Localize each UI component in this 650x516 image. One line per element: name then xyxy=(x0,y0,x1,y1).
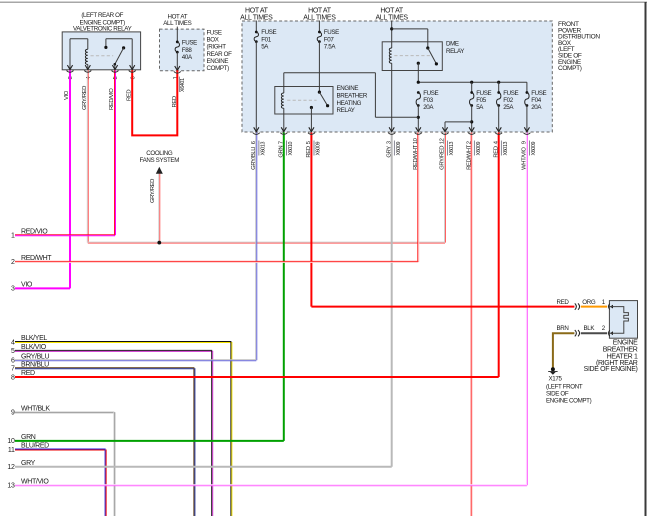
svg-text:X6013: X6013 xyxy=(260,142,266,156)
svg-text:(RIGHT: (RIGHT xyxy=(207,44,227,51)
svg-text:RED: RED xyxy=(556,299,569,306)
svg-text:BLK: BLK xyxy=(583,325,595,332)
svg-text:FUSE: FUSE xyxy=(261,29,276,36)
svg-text:6: 6 xyxy=(11,358,15,365)
svg-text:(LEFT REAR OF: (LEFT REAR OF xyxy=(81,12,123,19)
svg-text:HOT AT: HOT AT xyxy=(245,7,269,14)
svg-text:5A: 5A xyxy=(476,104,484,111)
svg-text:COOLING: COOLING xyxy=(146,150,173,157)
svg-text:DME: DME xyxy=(446,41,459,48)
svg-text:COMPT): COMPT) xyxy=(558,65,582,72)
svg-text:ENGINE COMPT): ENGINE COMPT) xyxy=(546,398,592,405)
svg-text:BOX: BOX xyxy=(207,37,219,44)
svg-text:X6010: X6010 xyxy=(288,142,294,156)
svg-text:FUSE: FUSE xyxy=(324,29,339,36)
svg-text:FUSE: FUSE xyxy=(476,90,491,97)
svg-text:FUSE: FUSE xyxy=(207,29,222,36)
svg-text:BRN: BRN xyxy=(556,325,568,332)
svg-text:(LEFT FRONT: (LEFT FRONT xyxy=(546,384,583,391)
svg-text:F03: F03 xyxy=(423,97,434,104)
svg-text:5: 5 xyxy=(11,348,15,355)
svg-text:X6009: X6009 xyxy=(531,142,537,156)
svg-text:8: 8 xyxy=(11,374,15,381)
svg-text:F07: F07 xyxy=(324,36,335,43)
svg-text:HOT AT: HOT AT xyxy=(380,7,404,14)
svg-text:FUSE: FUSE xyxy=(531,90,546,97)
svg-text:X6013: X6013 xyxy=(449,142,455,156)
svg-text:20A: 20A xyxy=(531,104,542,111)
svg-text:X6013: X6013 xyxy=(503,142,509,156)
svg-text:COMPT): COMPT) xyxy=(207,65,230,72)
svg-text:40A: 40A xyxy=(182,54,193,61)
svg-text:ORG: ORG xyxy=(582,299,596,306)
svg-text:HEATING: HEATING xyxy=(337,100,362,107)
svg-text:ENGINE: ENGINE xyxy=(337,85,359,92)
svg-text:FUSE: FUSE xyxy=(423,90,438,97)
svg-text:10: 10 xyxy=(7,438,15,445)
svg-text:FUSE: FUSE xyxy=(182,40,197,47)
svg-text:5A: 5A xyxy=(261,44,269,51)
svg-text:FUSE: FUSE xyxy=(503,90,518,97)
svg-text:X6009: X6009 xyxy=(396,142,402,156)
svg-text:F01: F01 xyxy=(261,36,272,43)
svg-text:X6009: X6009 xyxy=(476,142,482,156)
svg-text:11: 11 xyxy=(8,447,15,454)
svg-text:25A: 25A xyxy=(503,104,514,111)
svg-text:SIDE OF ENGINE): SIDE OF ENGINE) xyxy=(584,366,638,373)
svg-text:X6401: X6401 xyxy=(180,78,186,92)
svg-text:4: 4 xyxy=(11,339,15,346)
svg-text:FANS SYSTEM: FANS SYSTEM xyxy=(140,157,180,164)
svg-text:2: 2 xyxy=(11,259,15,266)
svg-text:GRY/RED: GRY/RED xyxy=(150,179,156,203)
svg-text:F88: F88 xyxy=(182,47,193,54)
svg-text:3: 3 xyxy=(11,286,15,293)
svg-text:ENGINE: ENGINE xyxy=(613,340,638,347)
svg-text:20A: 20A xyxy=(423,104,434,111)
svg-text:ENGINE: ENGINE xyxy=(207,58,229,65)
svg-text:7: 7 xyxy=(11,366,15,373)
svg-text:7.5A: 7.5A xyxy=(324,44,337,51)
svg-text:F02: F02 xyxy=(503,97,514,104)
svg-text:REAR OF: REAR OF xyxy=(207,51,233,58)
svg-text:X6009: X6009 xyxy=(316,142,322,156)
svg-text:RELAY: RELAY xyxy=(337,107,355,114)
svg-text:BREATHER: BREATHER xyxy=(337,92,368,99)
svg-text:1: 1 xyxy=(11,233,15,240)
svg-text:13: 13 xyxy=(7,483,15,490)
svg-text:VALVETRONIC RELAY: VALVETRONIC RELAY xyxy=(73,26,132,33)
svg-text:9: 9 xyxy=(11,410,15,417)
svg-text:HOT AT: HOT AT xyxy=(308,7,332,14)
svg-text:SIDE OF: SIDE OF xyxy=(546,391,569,398)
svg-text:BREATHER: BREATHER xyxy=(603,347,638,354)
svg-text:12: 12 xyxy=(7,464,15,471)
svg-text:X175: X175 xyxy=(549,376,563,383)
svg-text:F05: F05 xyxy=(476,97,487,104)
svg-text:F04: F04 xyxy=(531,97,542,104)
svg-text:RELAY: RELAY xyxy=(446,48,464,55)
svg-text:ALL TIMES: ALL TIMES xyxy=(163,20,191,27)
